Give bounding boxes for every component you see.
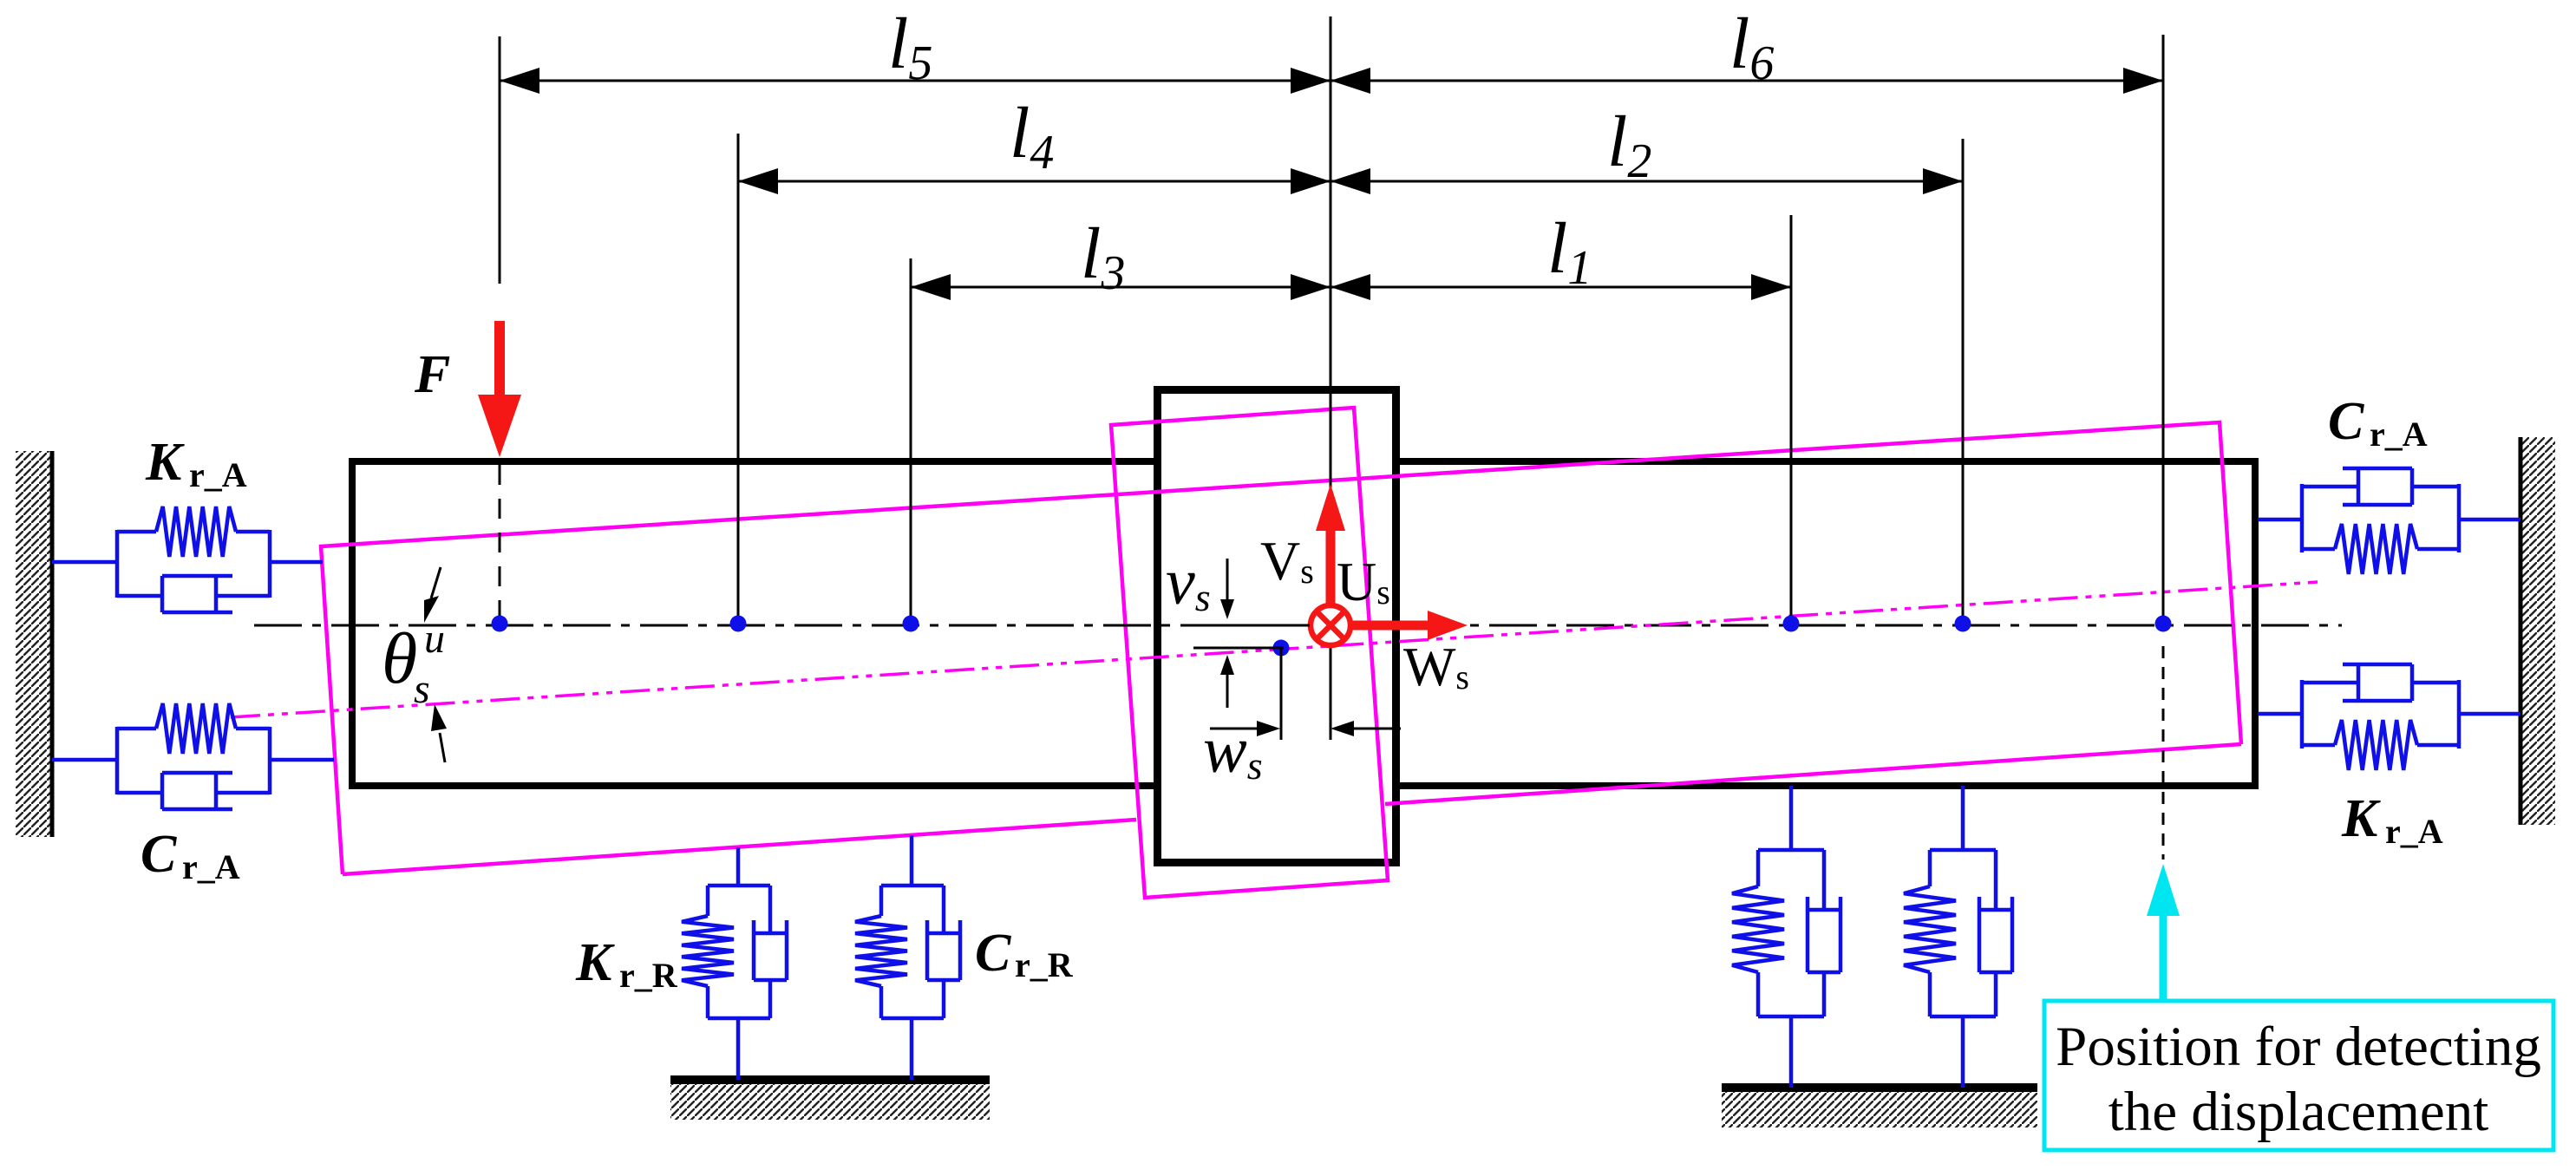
w_s dimension left arrow: [1210, 721, 1280, 736]
bottom bar: [708, 1016, 770, 1021]
spring K_r_A: [156, 507, 236, 557]
svg-text:C: C: [141, 825, 177, 884]
wire to ground: [1961, 1016, 1965, 1088]
svg-text:s: s: [414, 666, 430, 712]
beam neutral axis (black dash-dot centre line): [254, 624, 2342, 627]
dimension l6 line: [1330, 68, 2163, 94]
damper branch: [1822, 850, 1827, 910]
bottom bar: [1758, 1015, 1824, 1019]
svg-text:r_R: r_R: [1015, 945, 1074, 984]
spring branch K_r_R: [706, 886, 710, 916]
v_s displaced line: [1193, 647, 1284, 650]
top bar: [881, 884, 944, 888]
svg-text:θ: θ: [382, 618, 417, 699]
deformed beam bottom edge right segment: [1385, 744, 2241, 804]
damper branch C_r_R: [942, 886, 946, 933]
beam (spindle body, thick black rectangle): [352, 458, 2255, 789]
detection text box: [2044, 1001, 2553, 1150]
right ground: [1722, 1083, 2037, 1092]
wire element to wall: [2459, 712, 2520, 716]
svg-text:r_A: r_A: [2370, 415, 2428, 454]
extension line l1 right: [1790, 215, 1793, 621]
wire deformed beam to element: [736, 847, 741, 886]
deformed neutral axis (magenta dash-dot-dot tilted line): [231, 582, 2318, 717]
damper C_r_A: [160, 773, 165, 809]
top bar: [1758, 848, 1824, 853]
wire beam to K_r_A element: [2258, 712, 2302, 716]
left wall: [16, 451, 50, 837]
wire wall to K_r_A element: [52, 560, 117, 565]
deformed beam bottom edge left segment: [343, 820, 1136, 874]
V_s axis arrow: [1316, 484, 1345, 605]
spring right upper: [2335, 524, 2417, 574]
dimension l1 line: [1330, 274, 1791, 300]
damper of left upper element: [160, 576, 165, 612]
displaced centre dot: [1273, 640, 1290, 657]
wire element to wall: [2459, 518, 2520, 522]
svg-text:C: C: [975, 924, 1011, 983]
C_r_A right bar: [268, 727, 272, 794]
C_r_A left bar: [115, 727, 120, 794]
node dot at l4: [730, 616, 747, 632]
wire beam to element: [1961, 786, 1965, 850]
svg-text:the displacement: the displacement: [2109, 1081, 2489, 1143]
C_r_A top rail: [117, 727, 156, 731]
extension line l3 left: [910, 258, 912, 621]
deformed beam outline (magenta rotated rectangle): [321, 422, 2241, 874]
cyan detection arrow: [2147, 864, 2180, 1009]
svg-text:F: F: [414, 345, 450, 404]
damper rod right lower: [2302, 681, 2358, 685]
wire beam to C_r_A element: [2258, 518, 2302, 522]
dashed line under F: [499, 465, 501, 619]
wire to ground: [1789, 1016, 1794, 1088]
wire wall to C_r_A element: [52, 758, 117, 762]
damper cylinder right upper: [2343, 467, 2412, 471]
spring branch C_r_R: [879, 886, 884, 916]
bottom rail right upper: [2302, 547, 2335, 552]
wire element to deformed beam: [270, 758, 334, 762]
K_r_A left bar: [2300, 680, 2305, 748]
C_r_A left bar: [2300, 484, 2305, 552]
damper branch: [1994, 850, 1998, 910]
top bar: [1930, 848, 1996, 853]
bottom bar: [881, 1016, 944, 1021]
svg-text:K: K: [575, 933, 615, 992]
deformed housing outline (magenta rotated rectangle): [1111, 408, 1388, 898]
extension line l2 right: [1962, 139, 1965, 621]
C_r_A bottom rail: [117, 791, 162, 795]
dimension l2 line: [1330, 168, 1963, 194]
damper branch K_r_R: [768, 886, 773, 933]
K_r_A bottom rail: [117, 594, 162, 598]
wire to ground: [910, 1018, 914, 1080]
top bar: [708, 884, 770, 888]
w_s vertical line from displaced dot: [1280, 648, 1283, 740]
left ground: [670, 1075, 990, 1084]
bearing housing (center thick black rectangle): [1158, 390, 1396, 863]
node dot at l3: [903, 616, 919, 632]
svg-text:r_A: r_A: [189, 455, 247, 494]
svg-text:Position for detecting: Position for detecting: [2056, 1016, 2541, 1078]
wire deformed beam to element: [910, 835, 914, 886]
spring of left lower element: [156, 703, 236, 754]
bottom bar: [1930, 1015, 1996, 1019]
svg-text:u: u: [424, 616, 445, 662]
damper piston right upper: [2357, 468, 2361, 505]
dimension l5 line: [500, 68, 1330, 94]
svg-text:r_A: r_A: [182, 847, 240, 886]
W_s axis arrow: [1350, 611, 1468, 640]
angle theta lower arrow: [431, 704, 447, 762]
v_s up arrow: [1220, 655, 1234, 708]
spring branch: [1928, 850, 1932, 886]
angle theta upper arrow: [424, 567, 441, 623]
dimension l4 line: [738, 168, 1330, 194]
extension line at F / l5 left: [499, 36, 501, 284]
extension line l6 right: [2162, 35, 2165, 621]
right wall: [2522, 437, 2555, 825]
node dot at l1: [1783, 616, 1800, 632]
bottom rail right lower: [2302, 743, 2335, 748]
wire element to deformed beam: [270, 560, 323, 565]
spring right lower: [2335, 720, 2417, 770]
centre extension line: [1330, 16, 1332, 740]
extension line l4 left: [737, 134, 740, 621]
K_r_A left bar: [115, 530, 120, 598]
w_s dimension right arrow: [1330, 721, 1401, 736]
v_s reference line at axis level: [1193, 624, 1310, 627]
dashed line above detection position: [2162, 646, 2165, 860]
v_s down arrow: [1220, 559, 1234, 619]
svg-text:r_R: r_R: [619, 956, 678, 995]
svg-text:C: C: [2328, 392, 2364, 451]
damper rod right upper: [2302, 485, 2358, 489]
svg-text:r_A: r_A: [2385, 812, 2443, 851]
K_r_A right bar: [268, 530, 272, 598]
K_r_A top rail: [117, 530, 156, 534]
spring branch: [1756, 850, 1761, 886]
damper cylinder right lower: [2343, 663, 2412, 667]
svg-text:K: K: [145, 433, 185, 492]
wire beam to element: [1789, 786, 1794, 850]
dimension l3 line: [911, 274, 1330, 300]
svg-text:K: K: [2341, 789, 2381, 848]
wire to ground: [736, 1018, 741, 1080]
damper piston right lower: [2357, 664, 2361, 701]
node dot at l2: [1955, 616, 1971, 632]
node dot at l6: [2155, 616, 2172, 632]
force F red arrow: [478, 321, 521, 457]
origin symbol U_s (circle-cross): [1311, 605, 1350, 645]
node dot under F: [492, 616, 508, 632]
K_r_A right bar: [2457, 680, 2462, 748]
C_r_A right bar: [2457, 484, 2462, 552]
